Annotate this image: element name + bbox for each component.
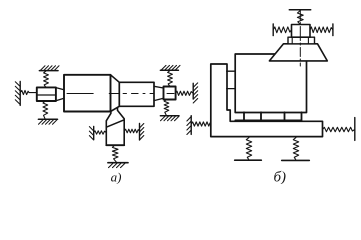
tool floor line: [108, 162, 128, 164]
right top spring: [168, 71, 173, 87]
top right spring: [310, 27, 333, 33]
base right anchor bar: [354, 118, 356, 141]
top left anchor bar: [272, 24, 274, 36]
neck lines: [292, 37, 308, 44]
tool block left side: [106, 111, 111, 145]
base right spring: [323, 127, 355, 131]
top vertical spring: [297, 11, 303, 25]
journal cylinder: [119, 82, 154, 106]
right ceiling line: [160, 69, 178, 71]
left horizontal spring: [20, 90, 37, 94]
tool right wall hatches: [140, 124, 144, 141]
left bottom spring: [43, 101, 48, 119]
feet dividers: [244, 112, 302, 120]
left bearing block: [37, 87, 56, 101]
tool left wall hatches: [89, 127, 93, 140]
left top spring: [44, 71, 49, 88]
right floor hatches: [161, 116, 180, 120]
column left spring: [191, 122, 211, 126]
top right anchor bar: [332, 24, 334, 36]
machine body: [235, 54, 306, 113]
left ceiling hatches: [41, 66, 60, 70]
tool bottom spring: [112, 145, 118, 162]
tool block right side: [118, 108, 125, 145]
tool block bottom: [106, 144, 124, 146]
right wall line: [192, 83, 194, 99]
left wall hatches: [15, 82, 20, 105]
ground pad 1: [235, 159, 262, 161]
tool right spring: [124, 129, 139, 133]
right ceiling hatches: [162, 65, 181, 69]
column and base outline: [211, 64, 323, 137]
base bottom spring 2: [293, 138, 298, 161]
tool block diagonal: [106, 120, 124, 127]
rotor body: [64, 75, 111, 112]
top left spring: [273, 27, 291, 33]
left bearing block split line: [37, 94, 56, 96]
left cone: [56, 88, 64, 101]
flange: [288, 37, 315, 44]
tool floor hatches: [109, 163, 126, 167]
svg-text:а): а): [111, 170, 122, 185]
right wall hatches: [193, 83, 198, 103]
left wall line: [19, 82, 21, 106]
vertical centerline: [299, 11, 301, 66]
column-body ties: [227, 71, 236, 88]
right horizontal spring: [176, 91, 194, 95]
left floor line: [38, 118, 57, 120]
b left wall: [190, 116, 192, 135]
left floor hatches: [39, 120, 58, 124]
right bottom spring: [164, 100, 169, 116]
right cone: [154, 86, 164, 100]
axis centerline: [67, 93, 175, 95]
ground pad 2: [282, 159, 310, 161]
taper rotor to journal: [111, 75, 120, 112]
base bottom spring 1: [246, 138, 251, 161]
tool left wall: [93, 127, 95, 140]
svg-text:б): б): [274, 169, 287, 184]
left ceiling line: [39, 70, 58, 72]
head block: [292, 25, 311, 38]
bell housing: [269, 44, 327, 61]
right floor line: [160, 115, 179, 117]
tool right wall: [139, 124, 141, 141]
b left wall hatches: [187, 117, 191, 135]
tool left spring: [94, 131, 106, 134]
right bearing block: [164, 87, 176, 100]
ceiling bar: [289, 9, 310, 11]
feet bottom line: [235, 119, 301, 121]
